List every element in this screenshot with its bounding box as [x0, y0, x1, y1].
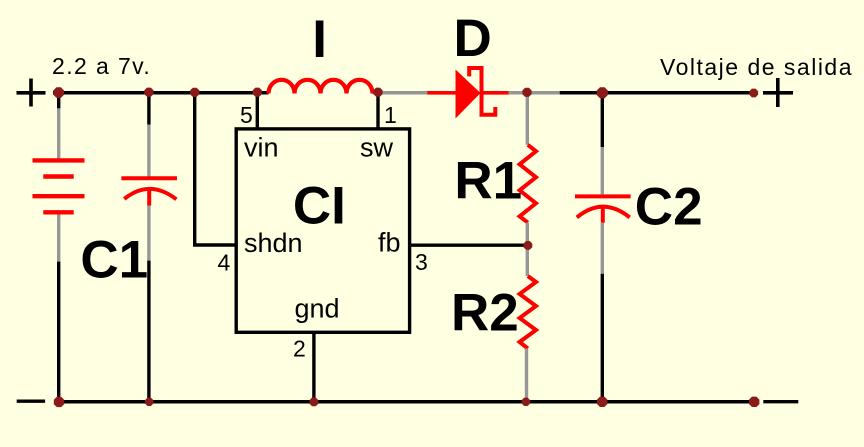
node dot output bottom: [749, 397, 759, 407]
wire R1 top lead (gray): [526, 94, 529, 145]
node dot diode out: [522, 88, 531, 97]
wire pin 1: [376, 93, 379, 129]
wire R2 bottom lead (gray): [525, 349, 528, 401]
node dot C1 top: [144, 88, 153, 97]
svg-text:5: 5: [240, 102, 253, 128]
wire C1 top lead: [147, 94, 150, 125]
wire top rail left (input to inductor): [53, 91, 269, 95]
diode D cathode lead: [483, 91, 509, 95]
wire battery bottom lead: [57, 215, 60, 262]
svg-text:2.2 a 7v.: 2.2 a 7v.: [52, 53, 151, 79]
node dot output top: [749, 89, 758, 98]
node dot pin1 top: [373, 88, 382, 97]
svg-text:CI: CI: [293, 176, 346, 235]
svg-text:I: I: [312, 10, 327, 69]
IC box U1: [236, 129, 409, 332]
diode D triangle: [456, 70, 481, 119]
svg-text:vin: vin: [244, 133, 279, 163]
wire bottom rail: [54, 400, 755, 404]
node dot gnd bottom: [310, 398, 319, 407]
svg-text:4: 4: [218, 250, 231, 276]
node dot battery bottom: [54, 397, 64, 407]
wire top rail inductor-to-diode (gray): [373, 91, 428, 95]
wire shdn drop: [195, 94, 237, 245]
wire C2 top lead: [601, 94, 604, 147]
wire diode output gray segment: [509, 91, 560, 95]
plus terminal input: [17, 79, 46, 107]
battery B1: [33, 160, 85, 212]
svg-text:R1: R1: [454, 152, 522, 211]
wire pin 5: [256, 93, 259, 129]
capacitor C2: [575, 196, 631, 222]
wire pin2 gnd drop: [312, 332, 315, 400]
svg-text:shdn: shdn: [244, 228, 303, 258]
node dot pin5 top: [253, 88, 262, 97]
svg-text:1: 1: [384, 102, 397, 128]
wire top rail right (to output): [560, 91, 755, 95]
diode D anode lead: [427, 91, 456, 95]
capacitor C1: [121, 178, 177, 205]
svg-text:2: 2: [293, 336, 306, 362]
plus terminal output: [763, 78, 793, 107]
wire R1 bottom lead (gray): [526, 223, 529, 276]
minus terminal output: [763, 400, 798, 403]
diode D schottky bar: [469, 68, 495, 115]
svg-text:C2: C2: [635, 178, 703, 237]
svg-text:gnd: gnd: [295, 294, 340, 324]
node dot R2 bottom: [522, 398, 530, 406]
node dot input top: [53, 87, 64, 98]
minus terminal input: [17, 400, 45, 403]
node dot fb junction: [524, 241, 533, 250]
resistor R1: [520, 145, 536, 223]
svg-text:C1: C1: [80, 231, 148, 290]
svg-text:Voltaje de salida: Voltaje de salida: [660, 54, 853, 80]
wire C1 bottom lead: [147, 206, 150, 261]
svg-text:3: 3: [415, 249, 428, 275]
resistor R2: [520, 276, 536, 349]
svg-text:sw: sw: [360, 133, 394, 163]
svg-text:R2: R2: [451, 284, 519, 343]
wire battery top lead: [57, 94, 60, 108]
svg-text:D: D: [454, 9, 492, 68]
svg-text:fb: fb: [378, 228, 401, 258]
wire C2 bottom lead: [601, 223, 604, 274]
inductor I: [269, 80, 373, 94]
node dot C2 top: [597, 87, 608, 98]
node dot C1 bottom: [145, 398, 153, 406]
node dot C2 bottom: [597, 397, 607, 407]
wire fb to divider: [410, 243, 528, 246]
node dot shdn top: [190, 88, 199, 97]
